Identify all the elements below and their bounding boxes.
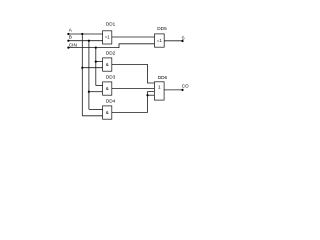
wire B vertical xyxy=(88,41,90,110)
wire A horizontal xyxy=(68,33,102,35)
wire A to DD4 input xyxy=(82,115,102,117)
terminal CO xyxy=(181,89,183,91)
wire DD4 branch to DD6 lower input xyxy=(148,94,155,96)
svg-text:DD3: DD3 xyxy=(106,75,116,80)
svg-text:B: B xyxy=(69,35,72,40)
wire B to DD3 input xyxy=(89,91,103,93)
svg-text:1: 1 xyxy=(158,84,161,90)
svg-text:DD5: DD5 xyxy=(157,26,167,31)
xor gate DD1 xyxy=(103,31,112,44)
terminal CIN xyxy=(67,47,69,49)
wire A to DD2 input xyxy=(82,67,102,69)
svg-text:&: & xyxy=(106,110,109,115)
wire A vertical xyxy=(81,34,83,116)
wire DD5 output to S xyxy=(164,40,182,42)
svg-text:DD1: DD1 xyxy=(106,22,116,27)
svg-text:CIN: CIN xyxy=(69,43,77,48)
terminal B xyxy=(67,40,69,42)
svg-text:&: & xyxy=(106,86,109,91)
junction CIN to DD2 xyxy=(95,61,97,63)
svg-text:DD4: DD4 xyxy=(106,99,116,104)
svg-text:=1: =1 xyxy=(157,38,163,43)
terminal A xyxy=(67,33,69,35)
wire DD3 output to DD6 xyxy=(112,88,155,90)
junction A to DD2 xyxy=(81,67,83,69)
wire CIN to DD2 input xyxy=(96,61,103,63)
wire DD6 output to CO xyxy=(164,89,182,91)
wire CIN horizontal xyxy=(68,44,154,48)
wire DD4 output to DD6 xyxy=(112,92,155,113)
wire CIN to DD3 input xyxy=(96,85,103,87)
terminal S xyxy=(181,40,183,42)
svg-text:=1: =1 xyxy=(105,35,111,40)
svg-text:DD6: DD6 xyxy=(158,75,168,80)
and gate DD2 xyxy=(103,58,112,71)
junction node CIN xyxy=(95,47,97,49)
svg-text:&: & xyxy=(106,62,109,67)
junction node B xyxy=(88,40,90,42)
svg-text:CO: CO xyxy=(182,84,189,89)
xor gate DD5 xyxy=(155,34,165,47)
junction DD4 branch xyxy=(146,94,148,96)
wire DD2 output to DD6 xyxy=(112,65,155,84)
junction B to DD3 xyxy=(88,91,90,93)
and gate DD4 xyxy=(103,106,112,119)
or gate DD6 xyxy=(154,82,164,100)
and gate DD3 xyxy=(103,82,112,95)
wire DD1 output to DD5 xyxy=(112,36,155,38)
wire CIN vertical xyxy=(95,48,97,86)
svg-text:S: S xyxy=(182,36,185,41)
wire B horizontal xyxy=(68,40,102,42)
svg-text:DD2: DD2 xyxy=(106,51,116,56)
wire B to DD4 input xyxy=(89,108,103,110)
junction node A xyxy=(81,33,83,35)
